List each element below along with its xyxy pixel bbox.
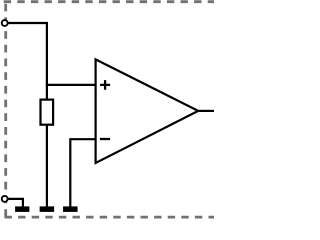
wire: op-amp output to right edge [198,110,214,112]
ground bar 2 [40,206,55,212]
selection dashed border bottom [5,216,215,219]
selection dashed border left [4,0,7,218]
resistor R1 [41,100,54,125]
op-amp - label [100,138,110,140]
terminal node bottom-left [2,196,8,202]
wire: top terminal to corner and down to resistor [5,23,47,100]
ground bar 3 [63,206,78,212]
wire: - input down to ground [70,139,96,206]
wire: junction to + input [46,84,97,86]
wire: bottom terminal to ground [5,199,23,207]
op-amp + label [100,80,110,90]
op-amp U1 [96,59,199,163]
terminal node top-left [2,20,8,26]
ground bar 1 [15,206,29,212]
selection dashed border top [4,0,214,3]
wire: resistor bottom to ground [46,125,48,207]
